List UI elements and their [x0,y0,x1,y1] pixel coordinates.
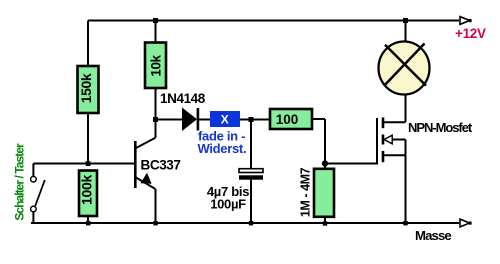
wire emitter to ground rail [155,189,157,223]
svg-text:+12V: +12V [455,26,486,41]
svg-text:Schalter / Taster: Schalter / Taster [13,143,27,221]
node junction base / 150k / 100k [86,161,91,166]
arrow Masse rail [460,219,472,227]
svg-text:X: X [221,113,229,127]
node rail tick 1M-4M7 [323,221,327,225]
resistor 100 [270,109,312,129]
svg-text:1N4148: 1N4148 [160,91,206,106]
svg-text:10k: 10k [149,54,164,76]
wire capacitor bottom [250,180,252,223]
svg-text:Masse: Masse [415,228,451,243]
node junction capacitor branch [249,117,254,122]
wire capacitor top [250,121,252,169]
node junction gate / 1M-4M7 [322,160,328,166]
resistor 1M - 4M7 [299,167,335,217]
svg-text:100k: 100k [79,175,95,205]
wire gate [325,163,377,165]
resistor 100k [79,171,98,217]
node rail tick capacitor [249,221,253,225]
wire lamp bottom to mosfet drain [405,95,407,123]
resistor 150k [78,66,99,113]
node rail tick emitter [153,221,157,225]
wire lamp top [405,21,407,43]
transistor NPN-Mosfet U1 [377,118,406,165]
node junction diode branch [153,117,158,122]
lamp [379,42,430,95]
wire mosfet source to ground rail [405,140,407,223]
wire left drop from rail [87,21,89,67]
wire 100k bottom stub [87,216,89,223]
svg-text:1M - 4M7: 1M - 4M7 [299,167,313,217]
diode 1N4148 [182,108,199,132]
wire 1M-4M7 top stub [324,166,326,169]
wire diode to fade resistor box [199,119,210,121]
svg-text:Widerst.: Widerst. [198,141,247,156]
node junction top rail / 10k [153,18,158,23]
wire 10k bottom to collector [155,88,157,138]
node rail tick 100k [86,221,90,225]
arrow +12V rail [460,17,472,25]
wire 100 resistor to gate corner [312,119,325,164]
wire 150k bottom to base wire [87,113,89,164]
wire top rail +12V [88,20,459,22]
switch S1 [31,164,45,224]
svg-text:BC337: BC337 [141,158,181,173]
svg-text:100: 100 [276,112,299,127]
node rail tick mosfet source [403,221,407,225]
wire junction to diode [156,119,183,121]
svg-text:NPN-Mosfet: NPN-Mosfet [408,120,473,135]
wire 1M-4M7 bottom stub [324,217,326,223]
transistor BC337 Q1 [134,138,155,189]
svg-text:150k: 150k [78,73,94,103]
fade-in resistor X box [210,111,240,127]
capacitor C1 4u7..100uF [239,169,263,180]
wire 10k top [155,21,157,43]
resistor 10k [145,43,166,89]
wire ground rail [31,222,459,224]
svg-text:100µF: 100µF [210,197,246,212]
wire base row [33,163,134,165]
wire X box to 100 resistor [240,119,270,121]
node junction top rail / lamp [403,18,408,23]
